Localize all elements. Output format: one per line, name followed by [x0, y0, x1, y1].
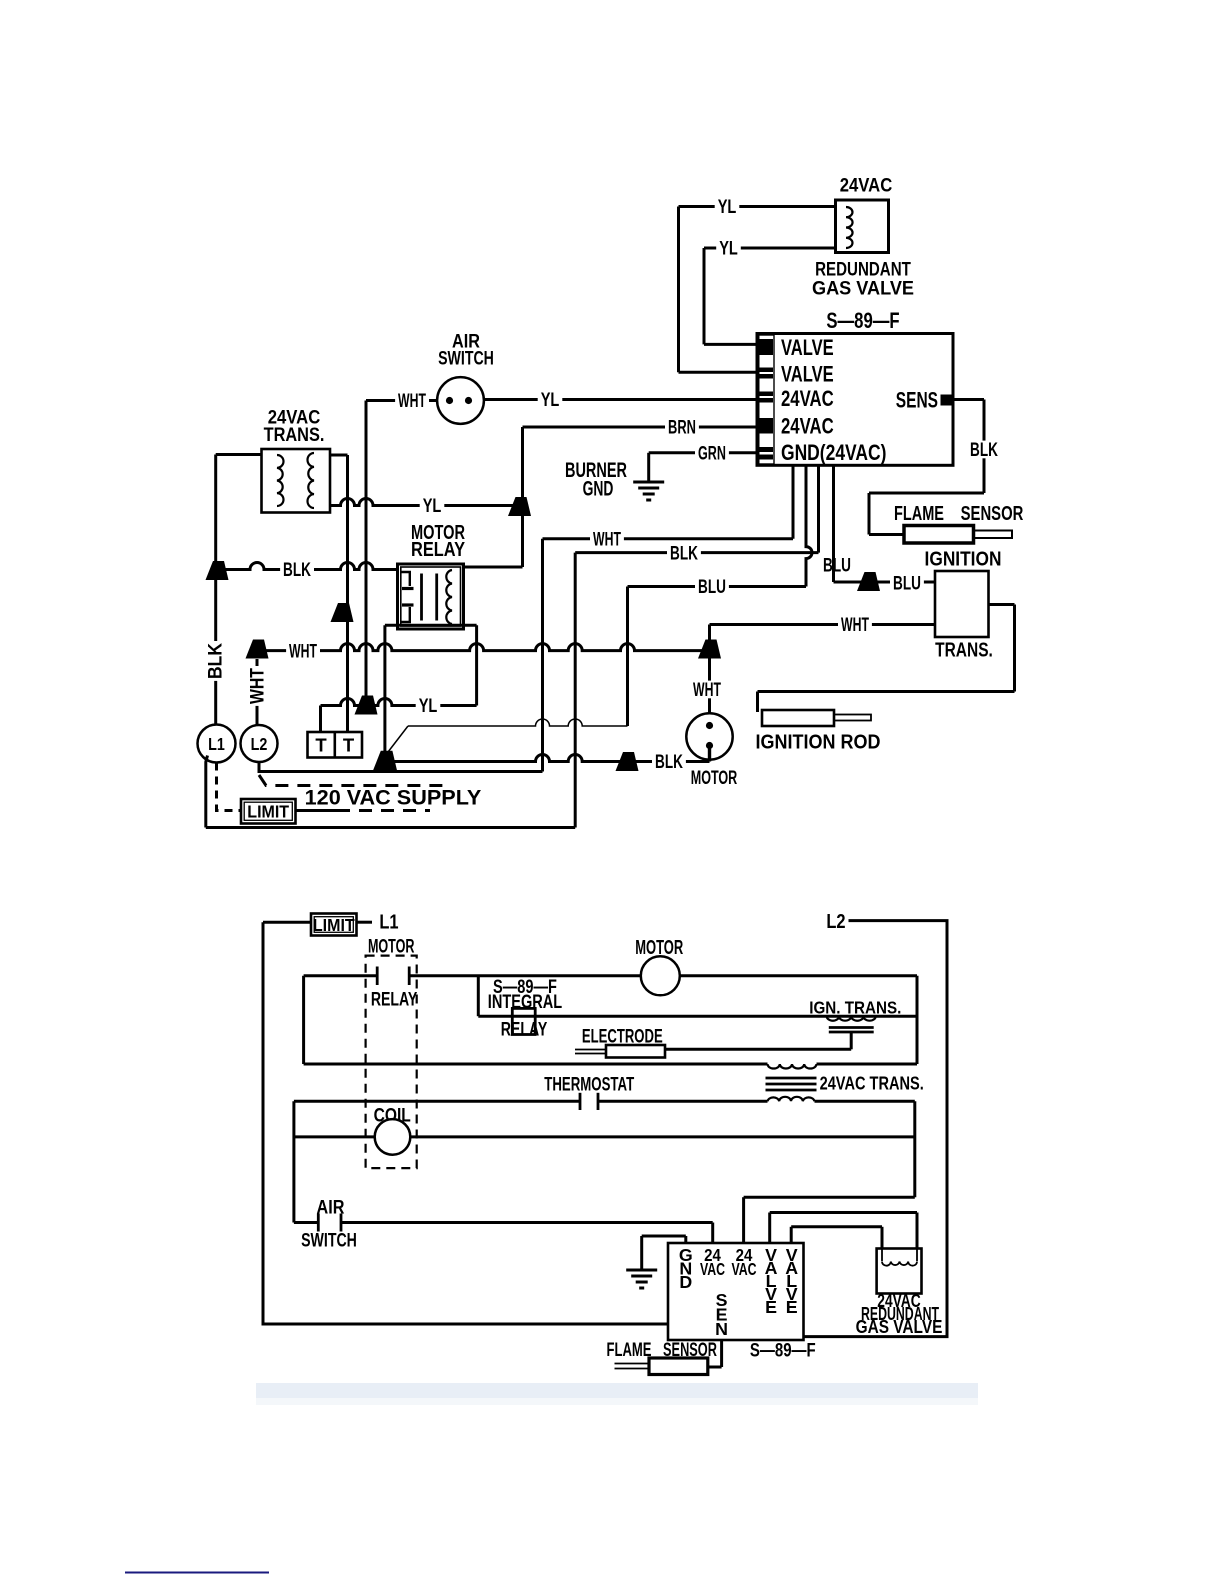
module S-89-F box (ladder) [668, 1243, 804, 1340]
ignition control module U1 S-89-F box [757, 334, 953, 466]
wire loop below relay [385, 624, 477, 627]
wire vertical transformer to T terminal [346, 455, 349, 732]
terminal strip on S-89-F [759, 335, 774, 464]
wire WHT bus from S-89-F [543, 537, 794, 540]
wire L1 to bottom line [206, 756, 208, 828]
air switch S1 [437, 377, 484, 424]
integral relay coil box [512, 1008, 535, 1034]
wire motor rung right [680, 974, 917, 977]
wire left rail L1 (ladder) [263, 922, 668, 1324]
wire right rail L2 [804, 921, 948, 1337]
junction wire-nut on BLK bus [616, 752, 639, 771]
wire LIMIT dashed continuation [337, 809, 430, 812]
wire dashed 120VAC boundary [259, 775, 443, 786]
label BLK rotated (left vertical) [206, 641, 224, 681]
wire YL2 vertical drop to VALVE terminal 1 [703, 248, 706, 344]
wire vertical from S-89-F pin BLU [806, 465, 812, 586]
wire thin link to splice [408, 719, 628, 726]
wire air switch rung right [341, 1221, 713, 1224]
wire WHT vertical from L2 [256, 659, 259, 725]
terminal L1 [198, 725, 236, 763]
ground symbol burner [633, 481, 664, 484]
wire transformer primary left [216, 453, 262, 456]
limit switch box (ladder) [311, 914, 357, 936]
ground symbol (ladder) [626, 1269, 657, 1272]
label BLU at ignition transformer [890, 574, 924, 592]
wire coil rung [294, 1135, 375, 1138]
junction wire-nut WHT at motor [698, 640, 721, 659]
flame sensor FS1 (ladder) [649, 1358, 708, 1375]
wire GRN to GND pin [649, 451, 759, 454]
wire vertical relay-loop left [383, 625, 386, 752]
limit switch box (top) [241, 799, 296, 824]
wire transformer secondary right [330, 454, 348, 457]
wire ignition trans secondary to electrode [850, 1032, 853, 1049]
wire bottom line to BLK vertical [206, 826, 575, 829]
junction wire-nut on BLK vertical [206, 561, 229, 580]
electrode E1 (ladder) [606, 1045, 665, 1058]
wire motor relay to BRN vertical [464, 566, 523, 569]
junction wire-nut main splice [373, 751, 397, 771]
relay K1 core bars [420, 574, 423, 621]
wire BLK transformer to motor relay [217, 563, 398, 570]
wire thermostat rung right [598, 1100, 768, 1103]
wire LIMIT right solid [296, 809, 338, 812]
ignition transformer symbol (ladder) [827, 1016, 876, 1021]
wire 24VAC transformer rung [304, 1063, 768, 1066]
wire YL2 from VALVE terminal to redundant gas valve [704, 247, 836, 250]
wire LIMIT feed [263, 921, 311, 924]
wire integral relay branch [477, 976, 480, 1016]
junction wire-nut on L2 WHT vertical [246, 640, 269, 659]
junction wire-nut YL/BRN [508, 497, 531, 516]
wire air switch rung left [294, 1221, 318, 1224]
label BLK on SENS wire [967, 441, 1001, 459]
wire long vertical from air switch down to YL junction [365, 401, 368, 706]
wire YL transformer secondary to junction [330, 499, 523, 506]
terminal L2 [241, 725, 278, 762]
wire WHT bus L2 to motor junction [257, 644, 710, 651]
wire rung1 to 24vac rung vertical [916, 976, 919, 1064]
wire SENS to flame sensor [954, 398, 985, 401]
transformer T1 24VAC [262, 449, 331, 513]
wire LIMIT stub to L1 [357, 921, 373, 924]
ignition rod E1 [762, 710, 834, 726]
contact motor relay (ladder) [376, 967, 379, 986]
wire motor to BLK bus [708, 746, 711, 762]
wire BLU bus from S-89-F [628, 585, 807, 588]
wire left T stub [319, 706, 322, 733]
junction wire-nut on transformer vertical [331, 603, 354, 622]
wire BLU vertical link [626, 587, 629, 727]
flame sensor FS1 [904, 526, 974, 544]
relay K1 contacts [400, 572, 410, 586]
contact air switch (ladder) [317, 1214, 320, 1232]
wire YL T-terminals to relay loop [321, 699, 477, 706]
wire vertical from S-89-F pin WHT [792, 465, 795, 538]
label WHT above motor [690, 681, 724, 699]
wire vertical from S-89-F pin BLU2 [832, 465, 835, 582]
junction wire-nut YL line [355, 696, 378, 715]
wire vertical relay-loop right [475, 625, 478, 705]
wire L1 dashed to LIMIT [217, 763, 242, 811]
redundant gas valve (ladder) [877, 1249, 922, 1294]
highlight bar [256, 1383, 978, 1398]
transformer T3 24VAC (ladder) [768, 1064, 817, 1069]
wire VALVE2 to gas valve [790, 1227, 793, 1243]
wire left vertical BLK L1 to transformer [214, 455, 217, 726]
dashed box motor relay (ladder) [366, 956, 417, 1169]
motor M1 [686, 713, 732, 759]
terminal block T-T [308, 732, 363, 758]
wire rung feeder vertical [302, 976, 305, 1064]
wire BLK mid vertical [574, 553, 577, 828]
relay K1 coil [446, 570, 452, 624]
wire GND pin to ground [684, 1236, 687, 1243]
wire left branch vertical [292, 1101, 295, 1222]
wire vertical from S-89-F pin BLK [817, 465, 820, 552]
wire ignition transformer to ignition rod [989, 603, 1015, 606]
wire YL1 vertical drop to VALVE terminal 2 [677, 207, 680, 373]
wire branch to 24VAC pin2 [744, 1196, 915, 1199]
wire WHT mid vertical [541, 539, 544, 772]
wire YL air switch to 24VAC pin [484, 398, 759, 401]
contact thermostat [579, 1093, 582, 1110]
wire VALVE1 to gas valve [768, 1213, 771, 1244]
footer link underline [125, 1572, 269, 1574]
wire right branch vertical [913, 1101, 916, 1197]
wire WHT corner to ignition transformer [708, 625, 711, 714]
label WHT rotated (L2 vertical) [248, 666, 266, 706]
motor M1 (ladder) [641, 956, 680, 995]
junction wire-nut BLU [857, 572, 880, 591]
ignition transformer T2 [935, 571, 989, 637]
wire YL1 from VALVE terminal to redundant gas valve [679, 205, 836, 208]
wire motor rung left [304, 974, 378, 977]
redundant gas valve coil (top) [836, 200, 889, 253]
wire ground drop [647, 453, 650, 481]
wire SEN to flame sensor (ladder) [720, 1340, 723, 1367]
wire L2 line to WHT vertical [259, 762, 543, 772]
wire BRN vertical down to relay [521, 427, 524, 567]
relay coil (ladder) [375, 1119, 411, 1155]
wire BRN junction to 24VAC pin [523, 426, 759, 429]
wire BLK bus from S-89-F [575, 551, 818, 554]
wire thermostat rung left [294, 1100, 580, 1103]
wire BLK bus motor to junction [390, 755, 710, 762]
wire integral relay rung [478, 1015, 917, 1018]
SENS terminal pad [941, 395, 955, 406]
relay K1 motor relay box [398, 564, 464, 629]
wire WHT from long vertical to air switch [366, 399, 437, 402]
wire motor rung middle [409, 974, 641, 977]
